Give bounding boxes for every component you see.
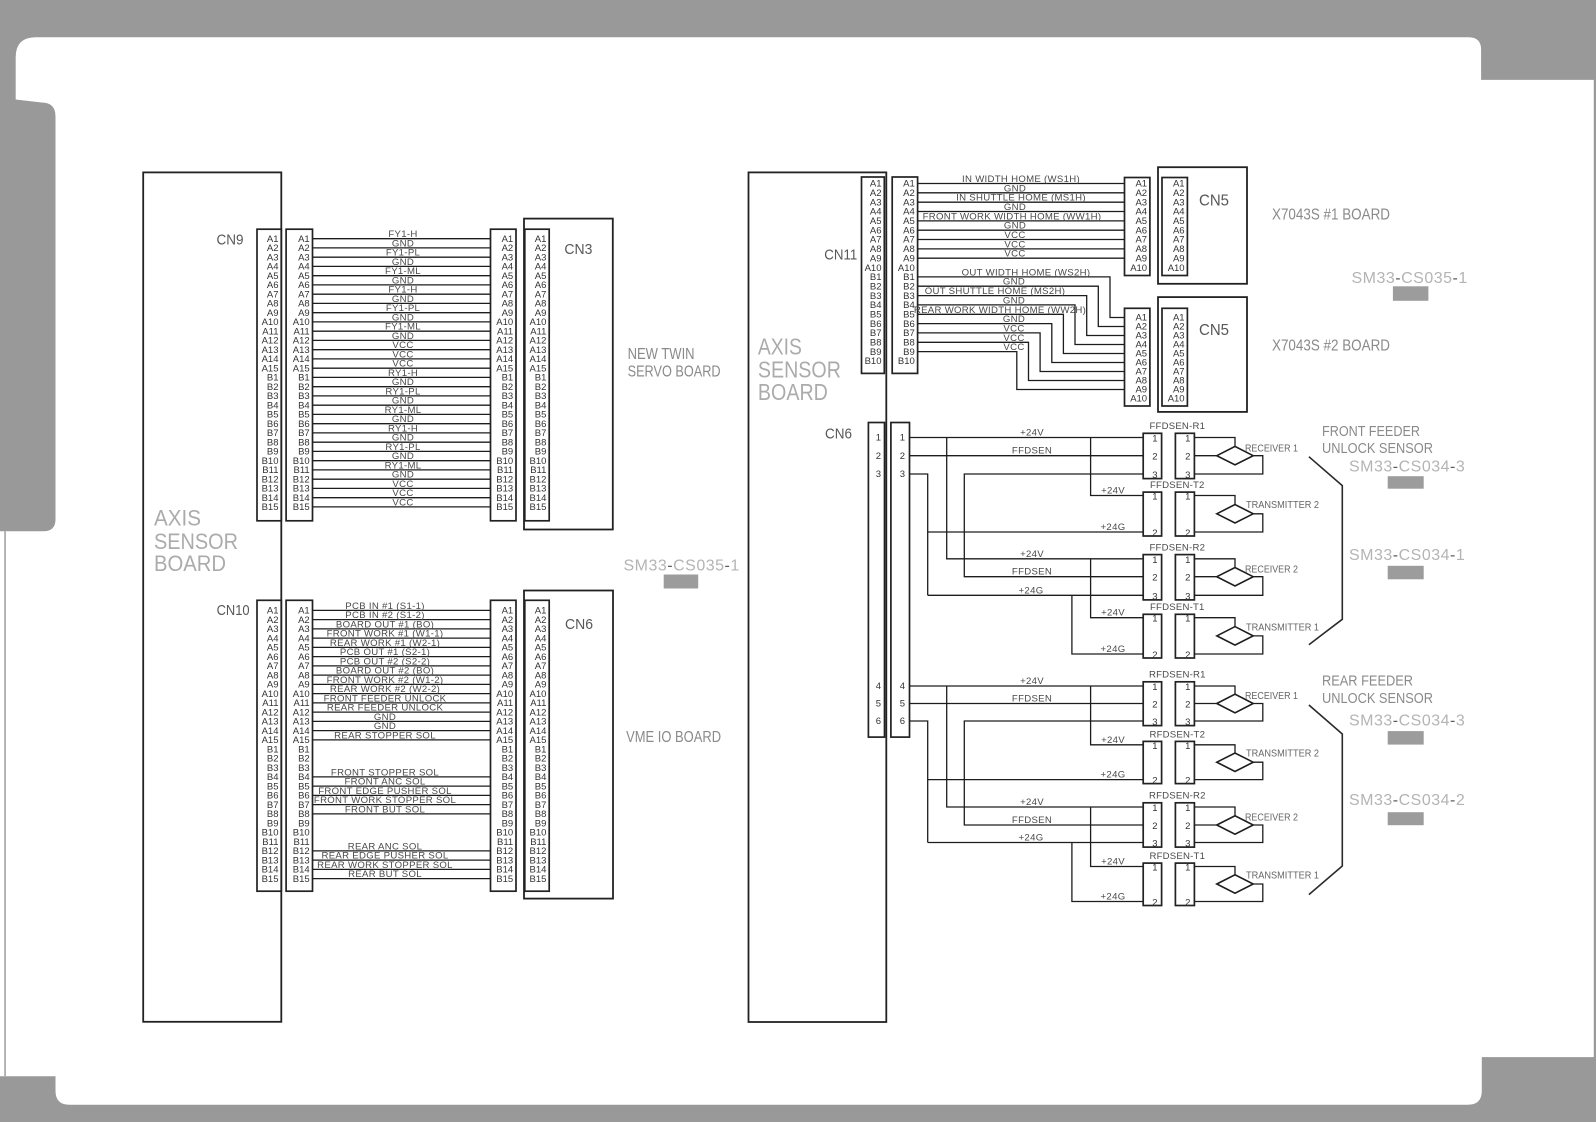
wire CN9 net GND xyxy=(313,386,491,388)
svg-text:3: 3 xyxy=(1185,839,1190,850)
wire CN9 net VCC xyxy=(313,497,491,499)
connector CN9 pin column (right box) xyxy=(286,229,312,521)
board outline X7043S #2 BOARD (CN5) xyxy=(1158,297,1247,412)
wire RFDSEN-T1 pin1 to diamond top xyxy=(1194,867,1235,875)
wire FFDSEN-R1 diamond right to pin3 xyxy=(1194,456,1262,474)
connector CN3 pin column (right box) xyxy=(525,229,549,521)
sensor connector RFDSEN-T1 (right box) xyxy=(1175,863,1194,905)
svg-text:3: 3 xyxy=(900,469,905,480)
svg-text:B15: B15 xyxy=(262,502,279,513)
svg-text:CN10: CN10 xyxy=(217,602,250,619)
revision box (rear SM33-CS034-3) xyxy=(1388,731,1424,745)
svg-text:1: 1 xyxy=(1152,863,1157,874)
svg-text:+24G: +24G xyxy=(1101,892,1126,903)
sensor connector FFDSEN-T1 pin numbers (right box) xyxy=(1185,614,1190,661)
svg-text:TRANSMITTER 2: TRANSMITTER 2 xyxy=(1246,749,1319,760)
sensor connector RFDSEN-T2 pin numbers (left box) xyxy=(1152,741,1157,787)
receiver 2 (front) diamond xyxy=(1217,568,1253,587)
svg-text:+24G: +24G xyxy=(1101,770,1126,781)
wire +24V branch to FFDSEN-T1 pin1 xyxy=(1091,559,1144,618)
svg-text:FFDSEN-T1: FFDSEN-T1 xyxy=(1150,602,1205,613)
board outline NEW TWIN SERVO BOARD (CN3) xyxy=(524,219,613,530)
svg-text:1: 1 xyxy=(1152,555,1157,566)
wire CN9 net GND xyxy=(313,247,491,249)
svg-text:CN5: CN5 xyxy=(1199,322,1229,339)
wire CN9 net GND xyxy=(313,321,491,323)
svg-text:3: 3 xyxy=(876,469,881,480)
sensor connector FFDSEN-R1 pin numbers (right box) xyxy=(1185,434,1190,482)
wire CN10 pin B14 net REAR WORK STOPPER SOL xyxy=(313,868,491,870)
wire CN9 net GND xyxy=(313,302,491,304)
svg-text:+24V: +24V xyxy=(1020,797,1044,808)
revision box (right SM33-CS035-1) xyxy=(1393,286,1429,301)
wire CN11 pin B2 net GND xyxy=(918,286,1125,326)
wire CN11 pin B5 net REAR WORK WIDTH HOME (WW2H) xyxy=(918,314,1125,353)
wire CN11 pin B9 net VCC xyxy=(918,352,1125,390)
svg-text:CN11: CN11 xyxy=(824,247,857,264)
svg-text:3: 3 xyxy=(1185,717,1190,728)
page left edge line xyxy=(4,531,6,1076)
wire FFDSEN-R2 pin2 to diamond left xyxy=(1194,576,1216,578)
svg-text:A10: A10 xyxy=(1130,263,1147,274)
connector CN10 pin column (left box) xyxy=(257,600,281,891)
connector CN3 pin column (left box) xyxy=(491,229,517,521)
wire CN11 pin A4 net GND xyxy=(918,211,1125,213)
wire FFDSEN-T1 diamond right to pin2 xyxy=(1194,636,1262,654)
svg-text:NEW TWIN: NEW TWIN xyxy=(628,346,695,363)
wire +24V branch trunk to FFDSEN-R2 pin1 xyxy=(947,438,1143,559)
svg-text:2: 2 xyxy=(1152,452,1157,463)
transmitter 2 (front) diamond xyxy=(1217,505,1253,524)
wire CN9 net VCC xyxy=(313,358,491,360)
svg-text:RFDSEN-T2: RFDSEN-T2 xyxy=(1149,729,1205,740)
svg-text:2: 2 xyxy=(1152,776,1157,787)
svg-text:CN5: CN5 xyxy=(1199,193,1229,210)
svg-text:FFDSEN: FFDSEN xyxy=(1012,694,1052,705)
svg-text:1: 1 xyxy=(1185,614,1190,625)
connector CN6 pin column (left box) xyxy=(868,423,884,738)
revision box (SM33-CS034-2) xyxy=(1388,812,1424,825)
wire CN9 net GND xyxy=(313,339,491,341)
wire FFDSEN-R1 pin2 to diamond left xyxy=(1194,455,1216,457)
wire CN6 RF FFDSEN signal to RFDSEN-R1 pin2 xyxy=(910,703,1144,705)
svg-text:RECEIVER 1: RECEIVER 1 xyxy=(1245,691,1298,702)
wire CN9 net FY1-H xyxy=(313,293,491,295)
wire CN10 pin A12 net REAR FEEDER UNLOCK xyxy=(313,711,491,713)
revision box (left SM33-CS035-1) xyxy=(664,575,699,589)
wire CN6 FF FFDSEN signal to FFDSEN-R1 pin2 xyxy=(910,455,1144,457)
svg-text:FFDSEN-T2: FFDSEN-T2 xyxy=(1150,480,1205,491)
svg-text:3: 3 xyxy=(1152,839,1157,850)
svg-text:CN6: CN6 xyxy=(565,616,593,633)
sensor connector FFDSEN-T2 (left box) xyxy=(1143,492,1161,536)
sensor connector RFDSEN-T2 (right box) xyxy=(1175,741,1194,783)
svg-text:UNLOCK SENSOR: UNLOCK SENSOR xyxy=(1322,690,1433,707)
brace for rear feeder sensor group xyxy=(1309,705,1342,895)
wire +24G branch to FFDSEN-T2 pin2 xyxy=(928,531,1143,533)
svg-text:1: 1 xyxy=(1152,803,1157,814)
sensor connector FFDSEN-T2 pin numbers (left box) xyxy=(1152,492,1157,540)
wire CN9 net VCC xyxy=(313,349,491,351)
svg-text:3: 3 xyxy=(1152,591,1157,602)
svg-text:2: 2 xyxy=(1152,650,1157,661)
svg-text:CN6: CN6 xyxy=(825,426,852,443)
svg-text:B15: B15 xyxy=(293,874,310,885)
wire CN9 net RY1-ML xyxy=(313,469,491,471)
board outline VME IO BOARD (CN6) xyxy=(524,591,613,899)
svg-text:RECEIVER 1: RECEIVER 1 xyxy=(1245,443,1298,454)
wire CN9 net FY1-ML xyxy=(313,275,491,277)
receiver 1 (rear) diamond xyxy=(1217,694,1253,713)
svg-text:5: 5 xyxy=(900,699,905,710)
sensor connector RFDSEN-T2 (left box) xyxy=(1143,741,1161,783)
transmitter 1 (front) diamond xyxy=(1217,627,1253,646)
revision box (SM33-CS034-1) xyxy=(1388,566,1424,580)
connector CN5-2 pin labels (right box) xyxy=(1168,313,1185,405)
svg-text:2: 2 xyxy=(1185,821,1190,832)
wire RFDSEN-R2 pin1 to diamond top xyxy=(1194,807,1235,816)
svg-text:1: 1 xyxy=(1185,863,1190,874)
connector CN6-left pin column (right box) xyxy=(525,600,549,891)
svg-text:B10: B10 xyxy=(865,356,882,367)
sensor connector FFDSEN-R2 (right box) xyxy=(1175,555,1194,600)
svg-text:X7043S #2 BOARD: X7043S #2 BOARD xyxy=(1272,338,1390,355)
svg-text:3: 3 xyxy=(1152,717,1157,728)
svg-text:+24V: +24V xyxy=(1101,486,1125,497)
wire +24G branch to FFDSEN-T1 pin2 xyxy=(1072,595,1143,654)
connector CN10 pin labels (right box) xyxy=(293,606,310,885)
connector CN10 pin labels (left box) xyxy=(262,606,279,885)
svg-text:+24V: +24V xyxy=(1020,676,1044,687)
sensor connector RFDSEN-R1 pin numbers (left box) xyxy=(1152,682,1157,728)
sensor connector RFDSEN-R1 (left box) xyxy=(1143,682,1161,726)
svg-text:FFDSEN-R1: FFDSEN-R1 xyxy=(1149,421,1205,432)
svg-text:SM33-CS034-1: SM33-CS034-1 xyxy=(1349,547,1465,564)
wire CN10 pin A10 net REAR WORK #2 (W2-2) xyxy=(313,693,491,695)
svg-text:REAR STOPPER SOL: REAR STOPPER SOL xyxy=(334,730,436,741)
svg-text:SM33-CS035-1: SM33-CS035-1 xyxy=(624,558,740,575)
svg-text:SM33-CS034-3: SM33-CS034-3 xyxy=(1349,713,1465,730)
sensor connector FFDSEN-T2 pin numbers (right box) xyxy=(1185,492,1190,540)
sensor connector RFDSEN-T2 pin numbers (right box) xyxy=(1185,741,1190,787)
svg-text:+24G: +24G xyxy=(1019,833,1044,844)
connector CN9 pin labels (left box) xyxy=(262,234,279,513)
wire CN11 pin A1 net IN WIDTH HOME (WS1H) xyxy=(918,183,1125,185)
connector CN5-2 pin labels (left box) xyxy=(1130,313,1147,405)
wire CN11 pin A2 net GND xyxy=(918,192,1125,194)
svg-text:CN9: CN9 xyxy=(217,232,244,249)
revision box (front SM33-CS034-3) xyxy=(1388,476,1424,489)
svg-text:2: 2 xyxy=(1152,821,1157,832)
wire CN10 pin B15 net REAR BUT SOL xyxy=(313,878,491,880)
wire RFDSEN-R1 pin2 to diamond left xyxy=(1194,703,1216,705)
connector CN6 pin labels (left box) xyxy=(876,433,881,728)
wire CN10 pin A3 net BOARD OUT #1 (BO) xyxy=(313,628,491,630)
wire CN10 pin A15 net REAR STOPPER SOL xyxy=(313,739,491,741)
wire CN9 net GND xyxy=(313,460,491,462)
svg-text:3: 3 xyxy=(1185,591,1190,602)
svg-text:2: 2 xyxy=(1185,700,1190,711)
wire CN10 pin B6 net FRONT EDGE PUSHER SOL xyxy=(313,794,491,796)
wire CN10 pin A11 net FRONT FEEDER UNLOCK xyxy=(313,702,491,704)
svg-text:TRANSMITTER 2: TRANSMITTER 2 xyxy=(1246,500,1319,511)
svg-text:TRANSMITTER 1: TRANSMITTER 1 xyxy=(1246,871,1319,882)
svg-text:5: 5 xyxy=(876,699,881,710)
wire +24V branch to RFDSEN-T1 pin1 xyxy=(1091,807,1144,867)
wire CN11 pin B6 net GND xyxy=(918,324,1125,363)
svg-text:+24G: +24G xyxy=(1101,522,1126,533)
connector CN11 pin column (right box) xyxy=(892,177,917,373)
wire CN11 pin B4 net GND xyxy=(918,305,1125,345)
wire CN6 RF ground trunk xyxy=(910,721,928,843)
svg-text:4: 4 xyxy=(900,681,905,692)
svg-text:RFDSEN-R1: RFDSEN-R1 xyxy=(1149,670,1206,681)
board outline AXIS SENSOR BOARD (left) xyxy=(143,172,281,1021)
wire CN10 pin B5 net FRONT ANC SOL xyxy=(313,785,491,787)
connector CN5-2 pin column (right box) xyxy=(1162,308,1187,406)
svg-text:1: 1 xyxy=(1185,741,1190,752)
wire RFDSEN-R2 pin2 to diamond left xyxy=(1194,824,1216,826)
wire CN11 pin B1 net OUT WIDTH HOME (WS2H) xyxy=(918,277,1125,318)
wire CN9 net VCC xyxy=(313,506,491,508)
svg-text:AXIS: AXIS xyxy=(154,505,201,530)
svg-text:+24G: +24G xyxy=(1019,585,1044,596)
svg-text:+24V: +24V xyxy=(1101,735,1125,746)
svg-text:B15: B15 xyxy=(496,502,513,513)
wire CN10 pin A9 net FRONT WORK #2 (W1-2) xyxy=(313,683,491,685)
wire CN9 net RY1-H xyxy=(313,432,491,434)
wire CN9 net VCC xyxy=(313,487,491,489)
svg-text:1: 1 xyxy=(1185,492,1190,503)
wire RFDSEN-T2 pin1 to diamond top xyxy=(1194,745,1235,753)
wire CN11 pin B8 net VCC xyxy=(918,342,1125,380)
connector CN9 pin labels (right box) xyxy=(293,234,310,513)
svg-text:VME IO BOARD: VME IO BOARD xyxy=(626,729,721,746)
sensor connector FFDSEN-T2 (right box) xyxy=(1175,492,1194,536)
svg-text:1: 1 xyxy=(1185,434,1190,445)
board name AXIS SENSOR BOARD (right) xyxy=(758,334,841,406)
wire CN6 FF ground trunk xyxy=(910,474,928,595)
wire +24G to FFDSEN-R2 pin3 xyxy=(928,594,1143,596)
sensor connector RFDSEN-R2 pin numbers (right box) xyxy=(1185,803,1190,850)
wire CN9 net GND xyxy=(313,284,491,286)
wire CN6 FF +24V feed to FFDSEN-R1 pin1 xyxy=(910,437,1144,439)
connector CN10 pin column (right box) xyxy=(286,600,312,891)
wire +24V branch to FFDSEN-T2 pin1 xyxy=(1091,438,1144,496)
svg-text:2: 2 xyxy=(1185,573,1190,584)
svg-text:B15: B15 xyxy=(529,874,546,885)
wire CN10 pin A1 net PCB IN #1 (S1-1) xyxy=(313,609,491,611)
transmitter 2 (rear) diamond xyxy=(1217,753,1253,772)
connector CN6-left pin column (left box) xyxy=(491,600,517,891)
wire CN9 net GND xyxy=(313,404,491,406)
svg-text:1: 1 xyxy=(900,433,905,444)
wire +24G branch to RFDSEN-T2 pin2 xyxy=(928,779,1143,781)
svg-text:TRANSMITTER 1: TRANSMITTER 1 xyxy=(1246,622,1319,633)
wire CN10 pin A7 net PCB OUT #2 (S2-2) xyxy=(313,665,491,667)
svg-text:REAR FEEDER: REAR FEEDER xyxy=(1322,673,1413,690)
transmitter 1 (rear) diamond xyxy=(1217,875,1253,893)
wire CN11 pin B7 net VCC xyxy=(918,333,1125,372)
wire CN9 net FY1-PL xyxy=(313,256,491,258)
svg-text:1: 1 xyxy=(1152,434,1157,445)
wire CN11 pin A3 net IN SHUTTLE HOME (MS1H) xyxy=(918,201,1125,203)
svg-text:2: 2 xyxy=(1185,776,1190,787)
wire RFDSEN-R1 diamond right to pin3 xyxy=(1194,704,1262,722)
wire CN9 net FY1-ML xyxy=(313,330,491,332)
board name AXIS SENSOR BOARD (left) xyxy=(154,505,238,576)
sensor connector FFDSEN-T1 (right box) xyxy=(1175,614,1194,658)
svg-text:4: 4 xyxy=(876,681,881,692)
svg-text:A10: A10 xyxy=(1130,394,1147,405)
svg-text:VCC: VCC xyxy=(1003,342,1024,353)
svg-text:2: 2 xyxy=(1152,700,1157,711)
svg-text:1: 1 xyxy=(1152,682,1157,693)
wire CN9 net RY1-PL xyxy=(313,395,491,397)
connector CN6-left pin labels (right box) xyxy=(529,606,546,885)
svg-text:1: 1 xyxy=(1152,614,1157,625)
sensor connector RFDSEN-T1 pin numbers (left box) xyxy=(1152,863,1157,909)
brace for front feeder sensor group xyxy=(1309,457,1342,645)
svg-text:B15: B15 xyxy=(262,874,279,885)
wire CN10 pin A2 net PCB IN #2 (S1-2) xyxy=(313,619,491,621)
svg-text:CN3: CN3 xyxy=(564,241,592,258)
svg-text:OUT WIDTH HOME (WS2H): OUT WIDTH HOME (WS2H) xyxy=(962,267,1091,278)
sensor connector RFDSEN-R2 (left box) xyxy=(1143,803,1161,847)
svg-text:B15: B15 xyxy=(496,874,513,885)
sensor connector FFDSEN-R1 (left box) xyxy=(1143,433,1161,478)
wire FFDSEN-R1 pin1 to diamond top xyxy=(1194,438,1235,447)
wire FFDSEN-R2 diamond right to pin3 xyxy=(1194,577,1262,596)
svg-text:RECEIVER 2: RECEIVER 2 xyxy=(1245,813,1298,824)
svg-text:1: 1 xyxy=(1185,803,1190,814)
receiver 2 (rear) diamond xyxy=(1217,816,1253,834)
wire CN11 pin A9 net VCC xyxy=(918,257,1125,259)
connector CN5-1 pin labels (left box) xyxy=(1130,179,1147,274)
wire CN11 pin A5 net FRONT WORK WIDTH HOME (WW1H) xyxy=(918,220,1125,222)
svg-text:FRONT FEEDER: FRONT FEEDER xyxy=(1322,423,1420,440)
svg-text:FFDSEN: FFDSEN xyxy=(1012,567,1052,578)
wire CN10 pin B13 net REAR EDGE PUSHER SOL xyxy=(313,859,491,861)
wire FFDSEN-R1 pin3 link to R2 pin2 xyxy=(964,474,1143,577)
svg-text:B15: B15 xyxy=(529,502,546,513)
wire CN10 pin B4 net FRONT STOPPER SOL xyxy=(313,776,491,778)
svg-text:A10: A10 xyxy=(1168,263,1185,274)
board name NEW TWIN SERVO BOARD xyxy=(628,346,721,381)
svg-text:2: 2 xyxy=(1185,452,1190,463)
board outline X7043S #1 BOARD (CN5) xyxy=(1158,167,1247,284)
svg-text:+24V: +24V xyxy=(1101,857,1125,868)
wire RFDSEN-T2 diamond right to pin2 xyxy=(1194,762,1262,779)
svg-text:2: 2 xyxy=(1185,528,1190,539)
connector CN5-1 pin labels (right box) xyxy=(1168,179,1185,274)
connector CN5-2 pin column (left box) xyxy=(1125,308,1150,406)
wire CN10 pin A6 net PCB OUT #1 (S2-1) xyxy=(313,656,491,658)
svg-text:VCC: VCC xyxy=(1004,249,1025,260)
connector CN6 pin labels (right box) xyxy=(900,433,905,728)
wire CN10 pin A8 net BOARD OUT #2 (BO) xyxy=(313,674,491,676)
svg-text:X7043S #1 BOARD: X7043S #1 BOARD xyxy=(1272,207,1390,224)
svg-text:B15: B15 xyxy=(293,502,310,513)
svg-text:1: 1 xyxy=(1152,741,1157,752)
wire CN10 pin A4 net FRONT WORK #1 (W1-1) xyxy=(313,637,491,639)
svg-text:UNLOCK SENSOR: UNLOCK SENSOR xyxy=(1322,440,1433,457)
connector CN9 pin column (left box) xyxy=(257,229,281,521)
wire CN9 net GND xyxy=(313,265,491,267)
svg-text:2: 2 xyxy=(900,451,905,462)
wire CN10 pin A13 net GND xyxy=(313,720,491,722)
wire CN9 net FY1-H xyxy=(313,238,491,240)
connector CN11 pin column (left box) xyxy=(862,177,885,373)
label REAR FEEDER UNLOCK SENSOR xyxy=(1322,673,1433,708)
svg-text:SERVO BOARD: SERVO BOARD xyxy=(628,363,721,380)
svg-text:6: 6 xyxy=(876,716,881,727)
svg-text:OUT SHUTTLE HOME (MS2H): OUT SHUTTLE HOME (MS2H) xyxy=(925,286,1066,297)
svg-text:REAR WORK WIDTH HOME (WW2H): REAR WORK WIDTH HOME (WW2H) xyxy=(914,305,1086,316)
label FRONT FEEDER UNLOCK SENSOR xyxy=(1322,423,1433,457)
svg-text:2: 2 xyxy=(1152,573,1157,584)
svg-text:RECEIVER 2: RECEIVER 2 xyxy=(1245,564,1298,575)
wire RFDSEN-R1 pin3 link to R2 pin2 xyxy=(964,721,1143,825)
svg-text:FFDSEN: FFDSEN xyxy=(1012,815,1052,826)
sensor connector FFDSEN-R1 pin numbers (left box) xyxy=(1152,434,1157,482)
wire CN9 net RY1-PL xyxy=(313,450,491,452)
wire CN11 pin A8 net VCC xyxy=(918,248,1125,250)
svg-text:1: 1 xyxy=(1185,682,1190,693)
wire CN9 net GND xyxy=(313,478,491,480)
connector CN11 pin labels (left box) xyxy=(865,179,882,368)
svg-text:6: 6 xyxy=(900,716,905,727)
wire CN9 net GND xyxy=(313,423,491,425)
wire RFDSEN-R1 pin1 to diamond top xyxy=(1194,686,1235,694)
wire CN10 pin B8 net FRONT BUT SOL xyxy=(313,813,491,815)
sensor connector FFDSEN-R2 pin numbers (left box) xyxy=(1152,555,1157,603)
wire FFDSEN-R2 pin1 to diamond top xyxy=(1194,559,1235,568)
receiver 1 (front) diamond xyxy=(1217,446,1253,465)
sensor connector FFDSEN-R2 pin numbers (right box) xyxy=(1185,555,1190,603)
svg-text:A10: A10 xyxy=(1168,394,1185,405)
wire CN9 net RY1-ML xyxy=(313,413,491,415)
svg-text:+24V: +24V xyxy=(1020,428,1044,439)
wire +24V branch trunk to RFDSEN-R2 pin1 xyxy=(947,686,1143,807)
sensor connector FFDSEN-T1 (left box) xyxy=(1143,614,1161,658)
svg-text:2: 2 xyxy=(1152,528,1157,539)
svg-text:1: 1 xyxy=(1185,555,1190,566)
svg-text:RFDSEN-R2: RFDSEN-R2 xyxy=(1149,791,1206,802)
svg-text:FFDSEN-R2: FFDSEN-R2 xyxy=(1149,542,1205,553)
wire +24G branch to RFDSEN-T1 pin2 xyxy=(1072,843,1143,902)
wire FFDSEN-T2 pin1 to diamond top xyxy=(1194,496,1235,505)
sensor connector RFDSEN-R2 (right box) xyxy=(1175,803,1194,847)
sensor connector FFDSEN-R2 (left box) xyxy=(1143,555,1161,600)
wire CN9 net RY1-H xyxy=(313,376,491,378)
wire CN11 pin A7 net VCC xyxy=(918,239,1125,241)
svg-text:2: 2 xyxy=(876,451,881,462)
wire CN10 pin B12 net REAR ANC SOL xyxy=(313,850,491,852)
board outline AXIS SENSOR BOARD (right) xyxy=(749,172,887,1022)
sensor connector RFDSEN-T1 pin numbers (right box) xyxy=(1185,863,1190,909)
sensor connector FFDSEN-R1 (right box) xyxy=(1175,433,1194,478)
svg-text:SM33-CS035-1: SM33-CS035-1 xyxy=(1352,270,1468,287)
connector CN5-1 pin column (left box) xyxy=(1125,178,1150,276)
wire RFDSEN-R2 diamond right to pin3 xyxy=(1194,825,1262,843)
svg-text:1: 1 xyxy=(1152,492,1157,503)
svg-text:2: 2 xyxy=(1185,898,1190,909)
svg-text:+24V: +24V xyxy=(1020,549,1044,560)
sensor connector FFDSEN-T1 pin numbers (left box) xyxy=(1152,614,1157,661)
connector CN6-left pin labels (left box) xyxy=(496,606,513,885)
wire +24V branch to RFDSEN-T2 pin1 xyxy=(1091,686,1144,745)
